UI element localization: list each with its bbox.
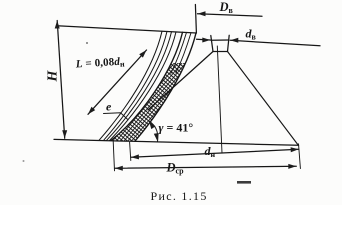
arrowhead gamma top — [149, 121, 156, 129]
svg-text:H: H — [46, 69, 61, 82]
arrowhead D_v — [198, 11, 206, 16]
D_sr left extension tick — [113, 141, 114, 171]
H dimension line — [57, 21, 64, 139]
arrowhead gamma bottom — [154, 133, 159, 141]
neck rectangle — [211, 39, 229, 41]
L dimension line — [88, 50, 147, 114]
arrowhead L bottom — [88, 107, 95, 115]
speck 1 — [86, 42, 88, 44]
svg-text:Dср: Dср — [166, 161, 185, 176]
arrowhead d_v pointing left — [230, 38, 238, 43]
e underline leader — [104, 113, 129, 120]
band thin curve 3 — [110, 32, 177, 141]
stray mark bottom right — [237, 181, 251, 184]
band thin curve 2 — [107, 32, 172, 141]
neck centerline — [217, 46, 222, 153]
band thin curve 1 — [104, 31, 168, 140]
arrowhead H bottom — [62, 130, 67, 138]
svg-text:dн: dн — [205, 144, 216, 159]
arrowhead D_sr right — [288, 164, 296, 169]
d_n left extension tick — [130, 142, 131, 160]
ground base line — [54, 139, 299, 145]
d_n dimension line — [131, 149, 299, 157]
arrowhead d_n left — [131, 154, 139, 159]
arrowhead d_v pointing right — [202, 38, 210, 43]
speck 2 — [23, 160, 25, 162]
cone right slant — [228, 52, 299, 146]
label L = 0,08d_n — [74, 56, 125, 72]
arrowhead D_sr left — [115, 166, 123, 171]
band left edge curve — [99, 31, 162, 140]
crosshatch right boundary — [135, 33, 196, 141]
arrowhead L top — [139, 50, 146, 58]
band inner upper line b — [176, 33, 191, 73]
svg-text:L = 0,08dн: L = 0,08dн — [74, 56, 125, 72]
svg-text:dв: dв — [246, 27, 257, 42]
band inner upper line a — [171, 32, 187, 73]
top flange line — [57, 26, 196, 33]
arrowhead H top — [55, 21, 60, 29]
D_v dimension line — [198, 14, 263, 16]
D_sr dimension line — [115, 166, 296, 168]
svg-text:Рис. 1.15: Рис. 1.15 — [151, 189, 208, 203]
crosshatch fill of section strip — [100, 63, 205, 143]
d_v left arrow line — [197, 38, 211, 41]
svg-text:Dв: Dв — [219, 0, 234, 15]
right corner extension tick — [299, 144, 301, 169]
svg-text:γ = 41°: γ = 41° — [159, 121, 194, 135]
crosshatch left boundary — [111, 32, 183, 140]
gamma angle arc — [149, 121, 158, 141]
inner cone line from neck — [148, 52, 213, 111]
arrowhead d_n right — [291, 147, 299, 152]
top-right vertical extension — [195, 5, 196, 34]
svg-text:e: e — [106, 100, 112, 114]
d_v right dimension line — [230, 40, 320, 46]
